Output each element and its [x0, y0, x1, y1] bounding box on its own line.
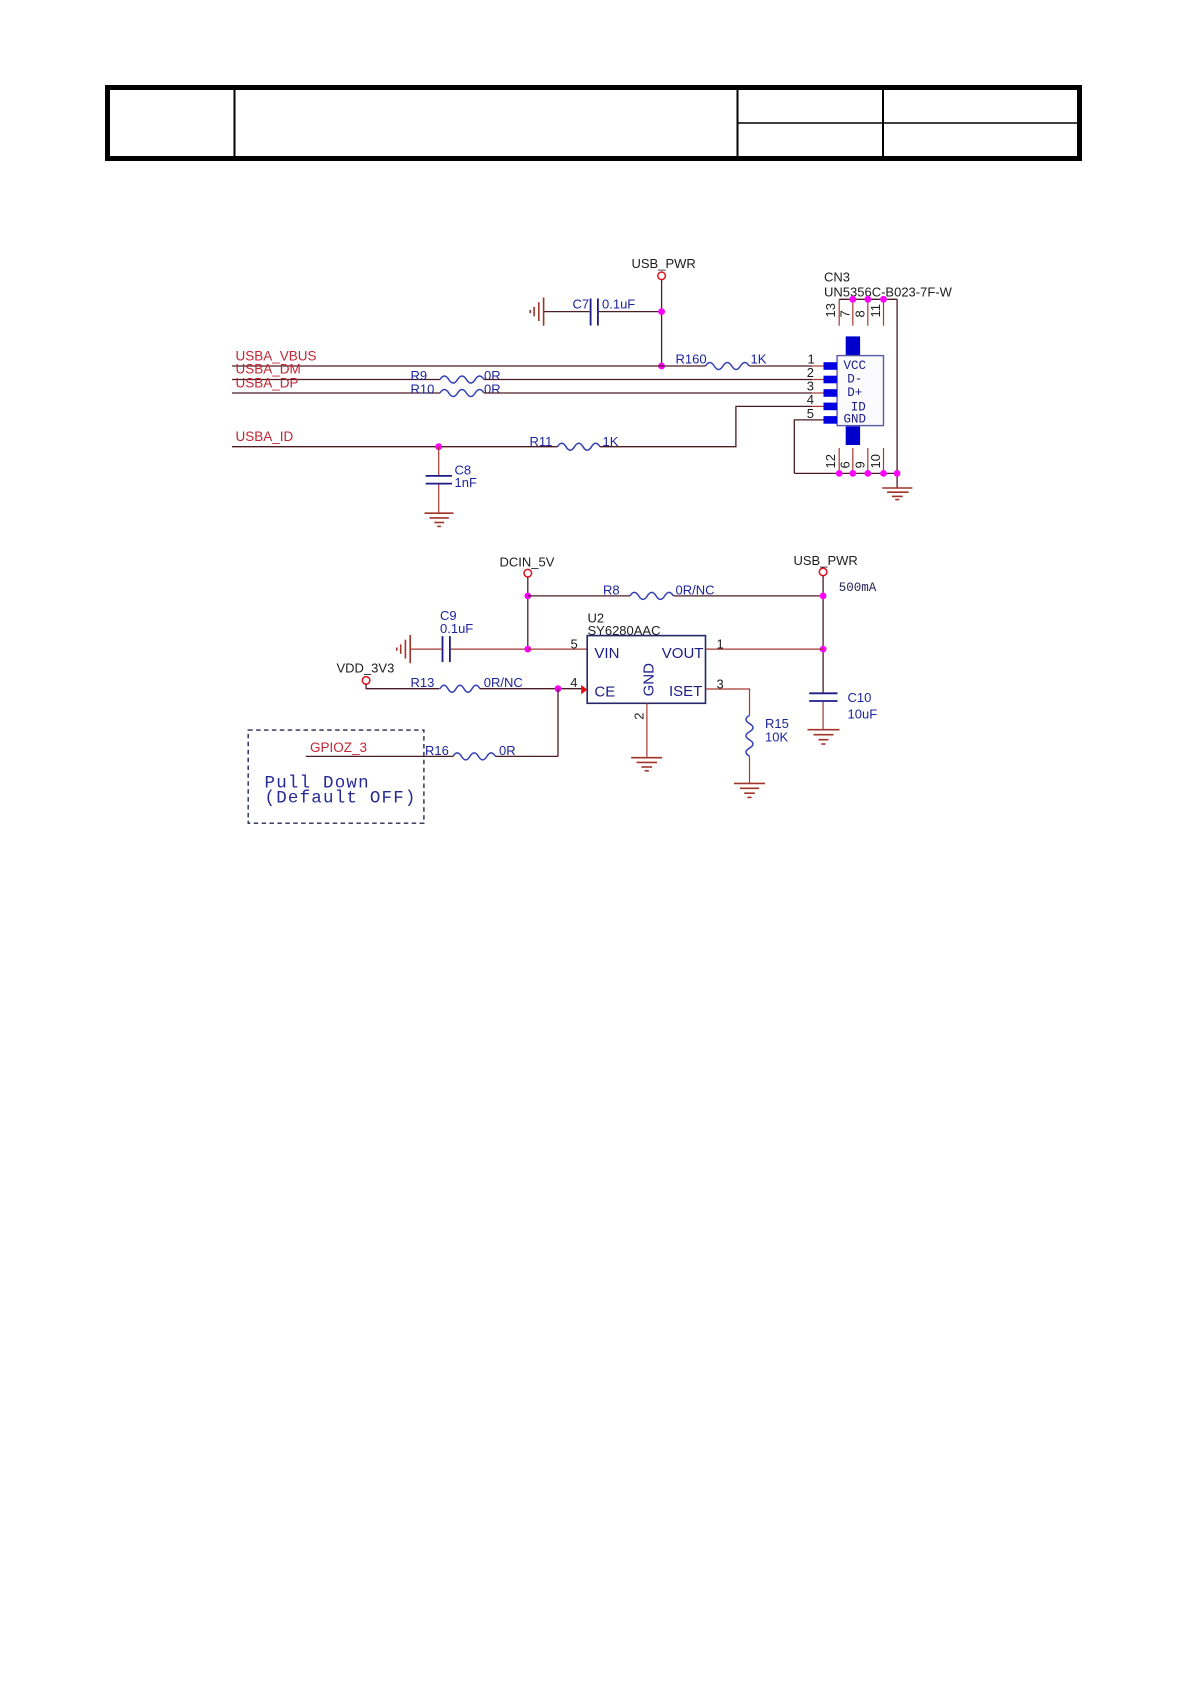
pin name D+ [847, 386, 862, 400]
pin name ISET [669, 683, 702, 700]
svg-text:USBA_DP: USBA_DP [236, 376, 299, 391]
svg-text:UN5356C-B023-7F-W: UN5356C-B023-7F-W [824, 285, 953, 300]
pin 7 stub [852, 299, 854, 325]
wire CN3 bottom ground bus [794, 472, 897, 474]
resistor R9 [411, 368, 501, 383]
wire C7 left to ground [544, 311, 590, 313]
svg-text:10K: 10K [765, 730, 788, 745]
svg-text:0.1uF: 0.1uF [440, 621, 473, 636]
svg-text:D+: D+ [847, 386, 862, 400]
pin number 8 [852, 310, 867, 317]
svg-text:9: 9 [852, 461, 867, 468]
pin number 3 [807, 379, 814, 394]
CN3 pin pad 2 [824, 376, 838, 384]
wire USBA_DP left [232, 392, 440, 394]
pin number 12 [823, 454, 838, 468]
pin name GND [844, 413, 867, 427]
resistor R16 [425, 743, 516, 760]
wire VDD_3V3 to R13 [366, 684, 439, 689]
pin 6 stub [852, 448, 854, 473]
wire R160 to pin1 [749, 365, 812, 367]
svg-text:1: 1 [717, 636, 724, 651]
wire C9 left [410, 648, 441, 650]
svg-text:GND: GND [641, 663, 658, 697]
CN3 pin pad 1 [824, 362, 838, 370]
svg-text:4: 4 [570, 675, 577, 690]
svg-text:500mA: 500mA [839, 581, 877, 595]
junction VOUT/USB_PWR [820, 646, 827, 653]
pin number 1 [717, 636, 724, 651]
svg-text:5: 5 [571, 636, 578, 651]
svg-text:C7: C7 [573, 297, 590, 312]
svg-text:GPIOZ_3: GPIOZ_3 [310, 740, 367, 755]
pin number 5 [807, 406, 814, 421]
svg-text:(Default OFF): (Default OFF) [265, 789, 417, 809]
wire R13 to CE [480, 688, 582, 690]
resistor R10 [411, 381, 501, 396]
pin number 2 (rotated) [632, 713, 647, 720]
wire USBA_DP right [484, 392, 812, 394]
junction pin11 top [880, 296, 887, 303]
pin number 3 [717, 677, 724, 692]
pin stub CN3 pin2 [812, 379, 824, 381]
svg-text:ISET: ISET [669, 683, 702, 700]
node USB_PWR right power symbol [794, 553, 858, 576]
svg-text:VIN: VIN [594, 645, 619, 662]
label 500mA [839, 581, 877, 595]
junction pin9 bottom [864, 470, 871, 477]
svg-text:C10: C10 [848, 690, 872, 705]
svg-text:10uF: 10uF [848, 707, 878, 722]
ground at C7 (rotated left) [530, 298, 543, 326]
svg-text:0R/NC: 0R/NC [676, 582, 715, 597]
pin stub CN3 pin3 [812, 392, 824, 394]
junction CE/GPIOZ [555, 685, 562, 692]
wire GPIOZ_3 to R16 [306, 755, 453, 757]
svg-text:11: 11 [868, 304, 883, 318]
wire CN3 pin5 to left drop [794, 420, 823, 474]
wire CN3 top shield net [839, 298, 897, 300]
op-amp U2 body [587, 636, 705, 704]
ground at C8 [425, 513, 454, 526]
wire R15 to ground [749, 756, 751, 783]
connector CN3 shell tab bottom [846, 426, 860, 445]
junction VBUS/USB_PWR [658, 363, 665, 370]
svg-text:USBA_DM: USBA_DM [236, 362, 301, 377]
junction pin6 bottom [849, 470, 856, 477]
pin 9 stub [867, 448, 869, 473]
wire USB_PWR vertical drop to VBUS [661, 280, 663, 366]
svg-text:1K: 1K [751, 352, 767, 367]
pin number 6 [837, 461, 852, 468]
CN3 pin pad 3 [824, 389, 838, 397]
svg-text:3: 3 [717, 677, 724, 692]
pin name VOUT [662, 645, 704, 662]
dashed option box [248, 730, 424, 823]
wire C10 to ground [822, 702, 824, 730]
pin number 5 [571, 636, 578, 651]
CN3 pin pad 5 [824, 416, 838, 424]
svg-text:R160: R160 [676, 352, 707, 367]
ground at R15 [734, 783, 765, 797]
wire ISET pin3 to R15 [706, 689, 750, 715]
wire GPIOZ vertical riser [557, 689, 559, 757]
svg-text:7: 7 [837, 310, 852, 317]
svg-text:CN3: CN3 [824, 270, 850, 285]
svg-text:USB_PWR: USB_PWR [794, 553, 858, 568]
svg-text:DCIN_5V: DCIN_5V [500, 554, 555, 569]
junction pin8 top [864, 296, 871, 303]
pin number 10 [868, 454, 883, 468]
pin name D- [847, 372, 862, 386]
wire USBA_DM left [232, 379, 440, 381]
pin number 2 [807, 365, 814, 380]
svg-text:VDD_3V3: VDD_3V3 [337, 661, 395, 676]
svg-text:R8: R8 [603, 582, 620, 597]
ground at C10 [808, 730, 840, 744]
svg-text:GND: GND [844, 413, 867, 427]
pin name GND (rotated) [641, 663, 658, 697]
capacitor C10 [809, 690, 877, 722]
wire VOUT pin1 [706, 648, 824, 650]
svg-text:13: 13 [823, 303, 838, 317]
wire DCIN_5V vertical [527, 577, 529, 649]
wire C8 bottom [438, 485, 440, 514]
svg-text:USBA_ID: USBA_ID [236, 429, 294, 444]
svg-text:USB_PWR: USB_PWR [632, 256, 696, 271]
junction pin10 bottom [880, 470, 887, 477]
CE input arrow [581, 685, 587, 694]
wire VIN pin5 [528, 648, 587, 650]
connector CN3 body [837, 356, 883, 426]
svg-text:6: 6 [837, 461, 852, 468]
wire R8 left [528, 595, 630, 597]
pin name VCC [844, 359, 867, 373]
svg-text:8: 8 [852, 310, 867, 317]
capacitor C7 [573, 297, 636, 326]
svg-text:D-: D- [847, 372, 862, 386]
pin number 4 [807, 392, 814, 407]
capacitor C8 [426, 462, 477, 490]
wire CN3 right shield vertical [896, 299, 898, 488]
svg-text:12: 12 [823, 454, 838, 468]
wire USBA_VBUS [232, 365, 706, 367]
svg-text:0R: 0R [499, 743, 516, 758]
junction USB_PWR/R8 [820, 593, 827, 600]
svg-text:R16: R16 [425, 743, 449, 758]
pin 12 stub [838, 448, 840, 473]
IC U2 reference labels [588, 610, 661, 638]
svg-text:R10: R10 [411, 381, 435, 396]
svg-text:10: 10 [868, 454, 883, 468]
resistor R160 [676, 352, 767, 370]
junction shield bottom [894, 470, 901, 477]
svg-text:R13: R13 [411, 675, 435, 690]
pin number 11 [868, 304, 883, 318]
wire R8 right to USB_PWR [673, 595, 823, 597]
ground at CN3 shield [882, 488, 912, 500]
title block divider 3 [882, 90, 884, 156]
wire C7 right to USB_PWR net [599, 311, 662, 313]
svg-text:VOUT: VOUT [662, 645, 704, 662]
ground at C9 (rotated left) [397, 635, 410, 663]
wire C8 top [438, 447, 440, 475]
wire USBA_ID left [232, 446, 558, 448]
svg-text:0.1uF: 0.1uF [602, 297, 635, 312]
svg-text:R11: R11 [530, 434, 553, 449]
connector CN3 reference labels [824, 270, 953, 300]
node GPIOZ_3 label [310, 740, 367, 755]
wire R16 to riser [495, 755, 558, 757]
node USBA_DM label [236, 362, 301, 377]
wire R11 to CN3 pin4 [600, 406, 812, 446]
junction C7/USB_PWR [658, 308, 665, 315]
junction C9/VIN [524, 646, 531, 653]
junction DCIN/R8 [524, 593, 531, 600]
wire USB_PWR vertical to C10 [822, 576, 824, 693]
wire USBA_DM right [484, 379, 812, 381]
pin name CE [594, 683, 615, 700]
CN3 pin pad 4 [824, 403, 838, 411]
pin stub CN3 pin4 [812, 405, 824, 407]
ground at U2 pin2 [631, 758, 662, 771]
wire U2 GND pin2 [646, 703, 648, 757]
pin number 4 [570, 675, 577, 690]
pin number 13 [823, 303, 838, 317]
wire C9 right to VIN [451, 648, 528, 650]
svg-text:1nF: 1nF [455, 475, 477, 490]
title block horizontal divider [738, 122, 1083, 124]
node USB_PWR (top power symbol) [632, 256, 696, 280]
pin number 9 [852, 461, 867, 468]
resistor R8 [603, 582, 715, 599]
resistor R15 (vertical) [746, 715, 789, 756]
pin 8 stub [867, 299, 869, 325]
title block divider 2 [737, 90, 739, 156]
note Pull Down [265, 773, 417, 808]
connector CN3 shell tab top [846, 336, 860, 355]
capacitor C9 [440, 608, 473, 662]
svg-text:0R: 0R [484, 381, 501, 396]
junction pin12 bottom [836, 470, 843, 477]
title block outer frame [108, 88, 1080, 159]
node DCIN_5V power symbol [500, 554, 555, 577]
svg-text:2: 2 [632, 713, 647, 720]
resistor R13 [411, 675, 523, 692]
svg-text:CE: CE [594, 683, 615, 700]
pin number 1 [808, 352, 815, 367]
node VDD_3V3 power symbol [337, 661, 395, 685]
pin name VIN [594, 645, 619, 662]
svg-text:VCC: VCC [844, 359, 867, 373]
svg-text:5: 5 [807, 406, 814, 421]
node USBA_ID label [236, 429, 294, 444]
pin number 7 [837, 310, 852, 317]
pin stub CN3 pin1 [812, 365, 824, 367]
title block divider 1 [234, 90, 236, 156]
pin 13 stub [838, 299, 840, 325]
svg-text:0R/NC: 0R/NC [484, 675, 523, 690]
junction pin7 top [849, 296, 856, 303]
resistor R11 [530, 434, 619, 450]
pin name ID [851, 401, 866, 415]
pin 11 stub [883, 299, 885, 325]
junction USBA_ID/C8 [435, 443, 442, 450]
node USBA_DP label [236, 376, 299, 391]
pin 10 stub [883, 448, 885, 473]
node USBA_VBUS label [236, 348, 317, 363]
